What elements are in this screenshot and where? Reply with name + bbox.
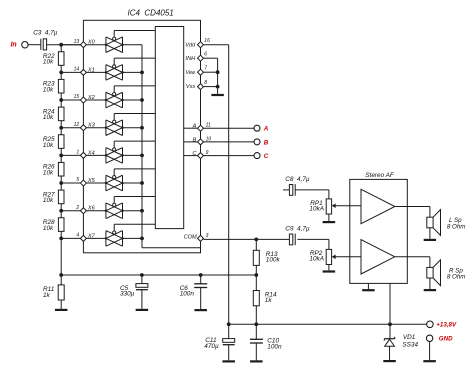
ground Stereo AF block: [367, 283, 369, 289]
wire RP1 wiper to amp input: [335, 205, 361, 207]
pin X3 diamond: [80, 125, 86, 131]
capacitor C9 4,7u: [289, 234, 292, 245]
node X5 pin 5 wires: [61, 182, 80, 184]
svg-text:X3: X3: [87, 123, 96, 129]
wire Vdd to +13.8V rail: [204, 44, 229, 46]
wire pin C to terminal: [204, 155, 255, 157]
pin X6 diamond: [80, 208, 86, 214]
IC4 CD4051 outer boundary: [83, 20, 200, 253]
switch X2 control gate: [113, 93, 116, 96]
node X3 pin 12 wires: [61, 127, 80, 129]
node B terminal: [254, 139, 260, 145]
node +13.8V terminal: [427, 321, 434, 328]
ground R Sp: [424, 289, 436, 291]
svg-text:X7: X7: [87, 233, 96, 239]
pin A 11: [184, 127, 198, 129]
ground RP2: [323, 270, 336, 272]
svg-text:X4: X4: [87, 150, 95, 156]
wire C8 to RP1: [295, 189, 329, 191]
pin Vdd 16: [198, 42, 204, 48]
svg-text:100k: 100k: [266, 257, 281, 264]
pin C 9: [184, 155, 198, 157]
resistor R22 10k: [58, 52, 64, 66]
svg-text:COM: COM: [184, 234, 197, 240]
speaker R Sp 8 Ohm: [427, 267, 433, 278]
ground VD1: [383, 360, 396, 362]
wire C3 to node X0: [47, 44, 81, 46]
svg-text:10kA: 10kA: [309, 206, 324, 213]
resistor R24 10k: [58, 107, 64, 121]
svg-text:INH: INH: [186, 56, 197, 62]
analog switch X2: [105, 92, 107, 108]
svg-text:15: 15: [74, 94, 80, 100]
switch X7 control gate: [113, 231, 116, 234]
svg-text:Vss: Vss: [186, 84, 196, 90]
svg-text:In: In: [10, 41, 16, 48]
svg-text:8 Ohm: 8 Ohm: [447, 274, 466, 281]
svg-text:330µ: 330µ: [120, 291, 135, 298]
svg-text:3: 3: [206, 233, 209, 239]
switch X6 control gate: [113, 203, 116, 206]
wire amp output to L Sp: [395, 206, 430, 208]
node X0 pin 13 wires: [61, 44, 80, 46]
op-amp A2 right channel: [361, 240, 395, 274]
svg-text:2: 2: [75, 205, 79, 211]
svg-text:12: 12: [74, 122, 80, 128]
svg-text:C3 4,7µ: C3 4,7µ: [33, 29, 58, 36]
node X7 pin 4 wires: [61, 237, 80, 239]
capacitor C5 330u: [141, 275, 143, 284]
pin X1 diamond: [80, 69, 86, 75]
switch X5 control gate: [113, 176, 116, 179]
svg-text:10k: 10k: [43, 225, 54, 232]
svg-text:+13,8V: +13,8V: [436, 322, 457, 329]
resistor R11 1k: [58, 285, 64, 300]
junction X7 output on COM bus: [140, 237, 144, 241]
resistor R28 10k: [58, 218, 64, 232]
svg-text:8: 8: [204, 80, 207, 86]
svg-text:10k: 10k: [43, 59, 54, 66]
svg-text:C9 4,7µ: C9 4,7µ: [285, 226, 310, 233]
junction X1 output on COM bus: [140, 70, 144, 74]
svg-text:1: 1: [76, 149, 79, 155]
capacitor C3: [40, 39, 42, 50]
resistor R23 10k: [58, 79, 64, 93]
node X4 pin 1 wires: [61, 154, 80, 156]
svg-text:5: 5: [76, 177, 79, 183]
svg-text:SS34: SS34: [402, 342, 418, 349]
pin B 10: [184, 141, 198, 143]
svg-text:10k: 10k: [43, 86, 54, 93]
resistor R25 10k: [58, 135, 64, 149]
potentiometer RP2 10kA: [326, 249, 331, 264]
potentiometer RP1 10kA: [326, 199, 331, 214]
node C terminal: [254, 153, 260, 159]
svg-text:6: 6: [204, 52, 207, 58]
IC4 internal control block: [155, 27, 183, 229]
ground R11: [55, 309, 67, 311]
svg-text:X2: X2: [87, 95, 96, 101]
svg-text:X0: X0: [87, 40, 96, 46]
svg-text:1k: 1k: [43, 292, 51, 299]
wire COM bus: [141, 45, 143, 248]
ground C5: [136, 309, 149, 311]
svg-text:VD1: VD1: [403, 334, 416, 341]
svg-text:10k: 10k: [43, 142, 54, 149]
capacitor C11 470u: [223, 339, 235, 343]
switch X3 control gate: [113, 120, 116, 123]
wire +13.8V rail: [229, 323, 427, 325]
wire amp output to R Sp: [395, 256, 430, 258]
wire X7 node to R11 and AGND bus: [61, 274, 256, 276]
analog switch X4: [105, 148, 107, 164]
ground C11: [222, 360, 235, 362]
svg-text:A: A: [263, 126, 269, 133]
svg-text:470µ: 470µ: [204, 343, 219, 350]
svg-text:10kA: 10kA: [309, 256, 324, 263]
svg-text:Vee: Vee: [185, 70, 195, 76]
wire pin A to terminal: [204, 127, 255, 129]
speaker L Sp 8 Ohm: [427, 217, 433, 228]
svg-text:IC4 CD4051: IC4 CD4051: [128, 9, 174, 18]
pin INH 6: [198, 55, 204, 61]
svg-text:GND: GND: [439, 335, 453, 342]
svg-text:C8 4,7µ: C8 4,7µ: [285, 176, 310, 183]
node X2 pin 15 wires: [61, 99, 80, 101]
ground C6: [194, 309, 207, 311]
pin Vss 8: [198, 84, 204, 90]
junction X5 output on COM bus: [140, 181, 144, 185]
svg-text:X1: X1: [87, 67, 95, 73]
svg-text:8 Ohm: 8 Ohm: [447, 223, 466, 230]
pin X2 diamond: [80, 97, 86, 103]
svg-text:1k: 1k: [265, 297, 273, 304]
resistor R27 10k: [58, 190, 64, 204]
svg-text:10k: 10k: [43, 169, 54, 176]
analog switch X7: [105, 231, 107, 247]
pin X0 diamond: [80, 42, 86, 48]
wire INH Vee Vss to ground: [204, 57, 218, 59]
resistor R26 10k: [58, 162, 64, 176]
junction dots on chain: [59, 43, 63, 47]
ground C10: [250, 360, 262, 362]
svg-text:B: B: [193, 137, 197, 143]
svg-text:Vdd: Vdd: [185, 42, 196, 48]
analog switch X3: [105, 120, 107, 136]
wire resistor chain vertical: [60, 45, 62, 285]
pin COM 3: [198, 235, 204, 241]
switch X1 control gate: [113, 65, 116, 68]
pin X4 diamond: [80, 152, 86, 158]
svg-text:4: 4: [76, 233, 79, 239]
wire RP2 wiper to amp input: [335, 256, 361, 258]
analog switch X1: [105, 65, 107, 81]
svg-text:10k: 10k: [43, 114, 54, 121]
wire R13 to R14 junction: [255, 265, 257, 290]
svg-text:B: B: [264, 139, 269, 146]
analog switch X6: [105, 203, 107, 219]
amplifier block Stereo AF: [350, 179, 408, 283]
node X6 pin 2 wires: [61, 210, 80, 212]
svg-text:10k: 10k: [43, 197, 54, 204]
junction X3 output on COM bus: [140, 126, 144, 130]
junction X6 output on COM bus: [140, 209, 144, 213]
ground L Sp: [424, 239, 436, 241]
svg-text:13: 13: [74, 39, 80, 45]
ground IC supply: [211, 94, 224, 96]
capacitor C10 100n: [255, 324, 257, 339]
node X1 pin 14 wires: [61, 71, 80, 73]
svg-text:C: C: [264, 153, 269, 160]
svg-text:X6: X6: [87, 206, 96, 212]
switch X0 control gate: [113, 37, 116, 40]
wire COM to C9 and RP2: [204, 238, 292, 240]
analog switch X0: [105, 37, 107, 53]
pin X5 diamond: [80, 180, 86, 186]
wire pin B to terminal: [204, 141, 255, 143]
svg-text:16: 16: [204, 38, 210, 44]
switch X4 control gate: [113, 148, 116, 151]
wire Stereo AF power to rail: [389, 283, 391, 324]
capacitor C6 100n: [200, 275, 202, 284]
resistor R13 100k: [255, 239, 257, 250]
svg-text:Stereo AF: Stereo AF: [365, 172, 395, 179]
svg-text:A: A: [192, 124, 197, 130]
node In terminal: [22, 42, 28, 48]
junction X4 output on COM bus: [140, 153, 144, 157]
resistor R14 1k: [253, 291, 259, 306]
svg-text:7: 7: [204, 66, 207, 72]
junction X2 output on COM bus: [140, 98, 144, 102]
node A terminal: [254, 125, 260, 131]
capacitor C8 4,7u: [283, 189, 289, 191]
op-amp A1 left channel: [361, 189, 395, 223]
ground GND terminal: [423, 360, 436, 362]
node GND terminal: [426, 335, 432, 341]
svg-text:100n: 100n: [180, 291, 195, 298]
svg-text:X5: X5: [87, 178, 96, 184]
analog switch X5: [105, 175, 107, 191]
svg-text:14: 14: [74, 66, 80, 72]
ground RP1: [323, 221, 336, 223]
diode VD1 SS34: [389, 324, 391, 338]
pin Vee 7: [198, 69, 204, 75]
wire In to C3: [28, 44, 40, 46]
svg-text:100n: 100n: [267, 343, 282, 350]
pin X7 diamond: [80, 235, 86, 241]
